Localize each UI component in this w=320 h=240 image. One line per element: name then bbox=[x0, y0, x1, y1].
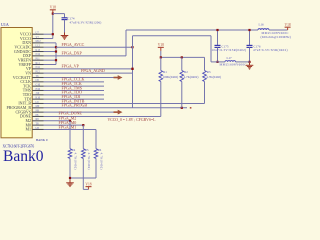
svg-text:FPGA_DONE: FPGA_DONE bbox=[59, 110, 83, 115]
label part number XC7K160T-2FFG676 bbox=[3, 145, 35, 149]
junction PROGB/R2 bbox=[181, 107, 183, 109]
pin P12 VN bbox=[25, 70, 43, 75]
svg-text:V18: V18 bbox=[284, 23, 290, 27]
pin R8 M2 bbox=[25, 118, 43, 123]
wire FPGA_VP bbox=[44, 68, 133, 70]
svg-text:FPGA_DXP: FPGA_DXP bbox=[62, 51, 83, 56]
wire AVCC top bus bbox=[126, 29, 258, 31]
svg-text:4.7K(0402): 4.7K(0402) bbox=[206, 75, 221, 79]
wire FPGA_DONE to R1 bbox=[44, 115, 161, 117]
pin T6 VCCBATT bbox=[13, 75, 44, 80]
capacitor C176 47uF bbox=[247, 30, 288, 62]
resistor R1 100K pullup bbox=[159, 57, 178, 116]
junction M0/R5 bbox=[82, 124, 84, 126]
wire to C174 bbox=[53, 14, 65, 18]
wire FPGA_TMS bbox=[44, 89, 105, 91]
wire FPGA_TDO bbox=[44, 94, 105, 96]
wire FPGA_TDI bbox=[44, 98, 105, 100]
net label FPGA_INITB bbox=[62, 98, 85, 103]
svg-text:L16: L16 bbox=[259, 22, 265, 26]
ground under R4 bbox=[66, 180, 74, 187]
net label FPGA_CCLK bbox=[62, 77, 85, 82]
svg-text:V18: V18 bbox=[50, 6, 56, 10]
pin M12 DXN bbox=[22, 40, 43, 45]
power port V18 (M0 pullup) bbox=[85, 182, 91, 186]
wire R4/mode bus to ground bbox=[70, 159, 96, 181]
power port V18 (config pullups) bbox=[158, 43, 164, 51]
ground at L17 bbox=[246, 62, 254, 69]
label Bank0 bbox=[3, 148, 44, 165]
wire C174 to ground bbox=[64, 20, 66, 33]
svg-text:M12: M12 bbox=[36, 40, 42, 43]
svg-text:R3: R3 bbox=[207, 70, 211, 74]
svg-text:V18: V18 bbox=[158, 43, 164, 47]
svg-text:BANK 0: BANK 0 bbox=[36, 138, 48, 142]
svg-text:R11: R11 bbox=[36, 62, 41, 65]
svg-text:L12: L12 bbox=[36, 44, 41, 47]
svg-text:FPGA_PROGB: FPGA_PROGB bbox=[62, 103, 88, 108]
svg-text:4.7K(0402): 4.7K(0402) bbox=[74, 153, 78, 170]
svg-text:H10: H10 bbox=[36, 88, 41, 91]
svg-text:N11: N11 bbox=[36, 66, 41, 69]
pin T8 M0 bbox=[25, 122, 43, 127]
svg-text:P12: P12 bbox=[36, 70, 41, 73]
wire L16 to V18 bbox=[269, 27, 288, 30]
svg-text:R2: R2 bbox=[184, 70, 188, 74]
resistor R6 4.7K bbox=[94, 129, 103, 169]
net label FPGA_M2 bbox=[59, 116, 77, 121]
svg-text:J10: J10 bbox=[36, 92, 40, 95]
inductor L16 MMZ1608Y600C bbox=[258, 22, 291, 38]
ground under C174 bbox=[61, 33, 69, 40]
net label FPGA_AVCC bbox=[62, 42, 85, 47]
net label FPGA_DONE bbox=[59, 110, 83, 115]
svg-text:N12: N12 bbox=[36, 53, 41, 56]
wire FPGA_M1 bbox=[44, 128, 97, 130]
wire AGND lower bus bbox=[211, 61, 250, 63]
svg-text:4.7K(0402): 4.7K(0402) bbox=[184, 75, 199, 79]
junction mode bus/ground bbox=[69, 177, 71, 179]
pin H10 TMS bbox=[23, 88, 44, 93]
svg-text:P11: P11 bbox=[36, 57, 41, 60]
wire FPGA_INITB to R3 bbox=[44, 102, 205, 104]
wire V18 to pullup bus bbox=[160, 51, 162, 58]
svg-text:FPGA_AGND: FPGA_AGND bbox=[81, 68, 105, 73]
net label FPGA_TDO bbox=[62, 90, 83, 95]
junction VP/AGND bbox=[131, 68, 133, 70]
wire VCCO stubs to rail bbox=[44, 34, 53, 38]
port arrow (CFGBVS) bbox=[114, 110, 123, 115]
pin P11 VREFN bbox=[18, 57, 44, 62]
pin G10 TCK bbox=[23, 83, 44, 88]
net label FPGA_M1 bbox=[59, 124, 77, 129]
pin P8 DONE bbox=[20, 114, 44, 119]
power port V18 (VCCO rail) bbox=[50, 6, 56, 14]
wire XADC tie bus bbox=[44, 43, 57, 65]
junction C176 bottom bbox=[248, 61, 250, 63]
net label FPGA_TCK bbox=[62, 81, 82, 86]
capacitor C175 10uF bbox=[212, 30, 247, 62]
wire R5 to V18 bbox=[83, 159, 88, 190]
svg-text:L17: L17 bbox=[227, 56, 233, 60]
pin L9 INIT_B bbox=[18, 101, 43, 106]
junction V18/C174 bbox=[52, 13, 54, 15]
pin L12 VCCADC bbox=[14, 44, 43, 49]
pin U8 M1 bbox=[25, 127, 43, 132]
junction VREFN bbox=[55, 59, 57, 61]
junction R1 top bbox=[160, 56, 162, 58]
junction C175 bottom bbox=[216, 61, 218, 63]
svg-text:FPGA_M1: FPGA_M1 bbox=[59, 124, 77, 129]
junction GNDADC bbox=[55, 50, 57, 52]
capacitor C174 47uF bbox=[62, 16, 102, 24]
resistor R2 4.7K pullup bbox=[180, 57, 198, 107]
svg-text:(600ohm@100MHz): (600ohm@100MHz) bbox=[261, 35, 292, 39]
resistor R4 4.7K bbox=[68, 121, 77, 170]
resistor R5 4.7K bbox=[82, 125, 91, 170]
svg-text:U1A: U1A bbox=[1, 22, 9, 27]
wire AGND bus bbox=[133, 36, 212, 108]
pin U7 VCCO bbox=[20, 31, 44, 36]
svg-text:4.7K(0402): 4.7K(0402) bbox=[87, 153, 91, 170]
net label FPGA_PROGB bbox=[62, 103, 88, 108]
pin J10 TDO bbox=[23, 92, 44, 97]
pin K10 TDI bbox=[24, 96, 43, 101]
port arrow (VCCBATT) bbox=[114, 75, 123, 80]
net label FPGA_VP bbox=[62, 64, 80, 69]
FPGA U1A Bank0 chip body bbox=[1, 22, 32, 138]
junction R2 top bbox=[181, 56, 183, 58]
wire FPGA_DXP to AVCC filter top bus bbox=[44, 30, 127, 56]
svg-text:M9: M9 bbox=[36, 105, 40, 108]
svg-text:M1: M1 bbox=[25, 127, 31, 132]
wire VCCBATT to port bbox=[44, 77, 114, 79]
power port V18 (right) bbox=[284, 23, 290, 27]
net label FPGA_TMS bbox=[62, 85, 82, 90]
pin N11 VP bbox=[26, 66, 44, 71]
junction C175 top bbox=[216, 29, 218, 31]
net label FPGA_AGND bbox=[81, 68, 105, 73]
wire V18 rail vertical bbox=[52, 14, 54, 39]
net label FPGA_TDI bbox=[62, 94, 82, 99]
label BANK 0 bbox=[36, 138, 48, 142]
wire FPGA_PROGB to R2 bbox=[44, 107, 188, 109]
pin N8 CFGBVS bbox=[15, 109, 43, 114]
resistor R3 4.7K pullup bbox=[203, 57, 221, 103]
svg-text:100K(0402): 100K(0402) bbox=[163, 75, 179, 79]
svg-text:R1: R1 bbox=[163, 70, 167, 74]
pin K13 GNDADC bbox=[14, 49, 44, 54]
junction VCCADC bbox=[55, 46, 57, 48]
wire FPGA_M2 bbox=[44, 120, 71, 122]
pin M9 PROGRAM_B bbox=[7, 105, 44, 110]
wire FPGA_AVCC bbox=[56, 46, 133, 48]
svg-text:FPGA_AVCC: FPGA_AVCC bbox=[62, 42, 85, 47]
wire FPGA_AGND bbox=[44, 72, 133, 74]
svg-text:4.7K(0402): 4.7K(0402) bbox=[100, 153, 104, 170]
net label FPGA_DXP bbox=[62, 51, 83, 56]
no-ERC marker PROGB bbox=[190, 107, 192, 109]
svg-text:K13: K13 bbox=[36, 49, 41, 52]
pin R11 VREFP bbox=[19, 62, 44, 67]
wire pullup top bus bbox=[161, 56, 205, 58]
wire CFGBVS to port bbox=[44, 111, 114, 113]
wire FPGA_CCLK bbox=[44, 81, 105, 83]
svg-text:47uF/6.3V/X5R(0402): 47uF/6.3V/X5R(0402) bbox=[253, 48, 288, 52]
note VCCO_0 bbox=[108, 118, 157, 122]
svg-text:VCCO_0 = 1.8V ; CFGBVS=L: VCCO_0 = 1.8V ; CFGBVS=L bbox=[108, 118, 157, 122]
svg-text:G10: G10 bbox=[36, 83, 41, 86]
junction M2/R4 bbox=[69, 120, 71, 122]
inductor L17 MMZ1608Y600C bbox=[220, 56, 247, 66]
svg-text:V18: V18 bbox=[85, 182, 91, 186]
pin N12 DXP bbox=[23, 53, 44, 58]
svg-text:Bank0: Bank0 bbox=[3, 148, 44, 165]
junction AVCC/agnd-bus bbox=[131, 46, 133, 48]
svg-text:47uF/6.3V/X5R(1206): 47uF/6.3V/X5R(1206) bbox=[70, 21, 102, 25]
pin V7 VCCO bbox=[20, 36, 44, 41]
svg-text:MMZ1608Y600C: MMZ1608Y600C bbox=[220, 63, 247, 67]
pin C8 CCLK bbox=[20, 79, 43, 84]
junction C176 top bbox=[248, 29, 250, 31]
svg-text:10uF/6.3V/X5R(0402): 10uF/6.3V/X5R(0402) bbox=[212, 48, 247, 52]
junction V18/VCCO bbox=[52, 33, 54, 35]
net label FPGA_M0 bbox=[59, 120, 77, 125]
svg-text:FPGA_VP: FPGA_VP bbox=[62, 64, 80, 69]
svg-text:K10: K10 bbox=[36, 96, 41, 99]
wire FPGA_M0 bbox=[44, 124, 84, 126]
wire FPGA_TCK bbox=[44, 85, 105, 87]
junction VP/AGND bbox=[131, 68, 133, 70]
